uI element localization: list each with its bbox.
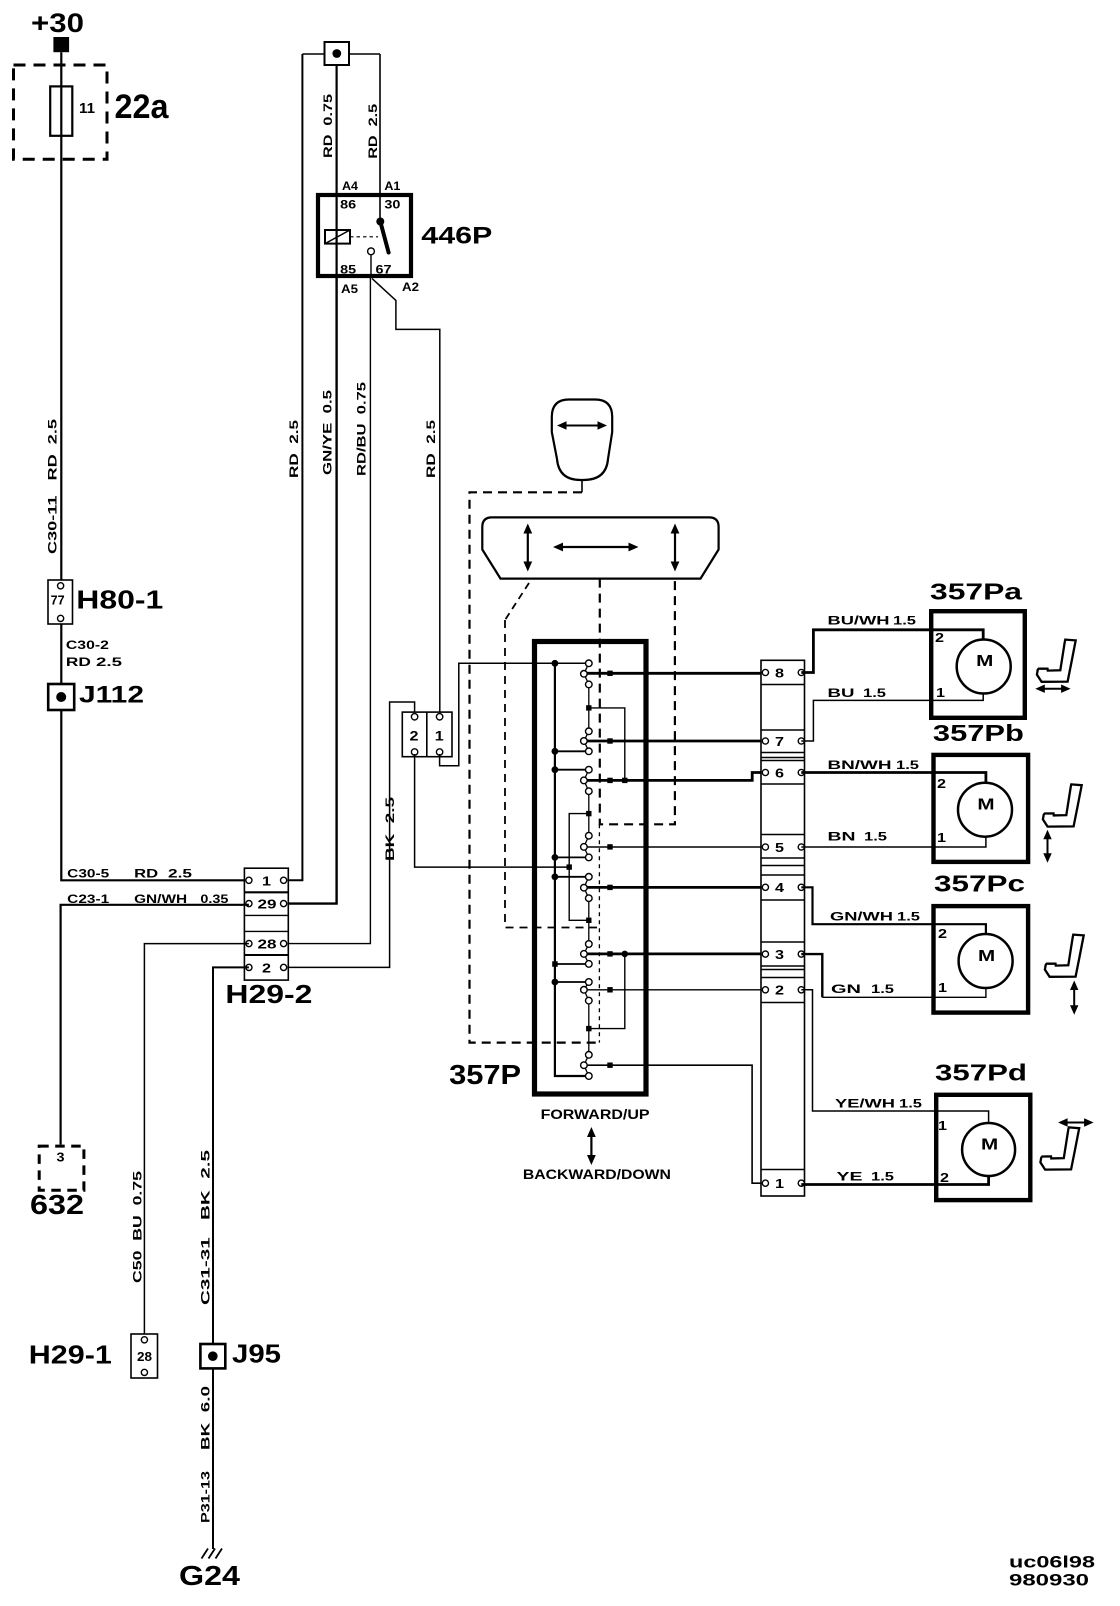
switch harness 2-pin connector body xyxy=(402,712,452,757)
seat a arrow xyxy=(1042,688,1064,690)
svg-text:632: 632 xyxy=(30,1189,84,1220)
svg-text:2: 2 xyxy=(410,728,419,744)
wire from junction left to RD 2.5 riser xyxy=(302,53,380,55)
svg-text:11: 11 xyxy=(79,100,95,117)
ground G24 symbol xyxy=(202,1549,223,1559)
contact chain verticals xyxy=(588,684,590,1054)
wire GN/WH 1.5 pin 4 to motor 357Pc xyxy=(801,887,986,934)
svg-text:28: 28 xyxy=(137,1349,152,1364)
wire C31-31 BK 2.5 H29-2 pin 2 to J95 and ground xyxy=(213,967,249,1549)
motor 357Pb M circle xyxy=(958,783,1012,837)
chain jumper 2 with connector return xyxy=(569,814,589,921)
wire BU/WH 1.5 pin 8 to motor 357Pa xyxy=(801,630,983,673)
wire RD 2.5 relay pin 67 to seat switch connector pin 1 xyxy=(372,279,440,715)
svg-text:+30: +30 xyxy=(31,8,84,38)
chain jumper 1 to pin 6 output xyxy=(589,708,625,781)
svg-text:2.5: 2.5 xyxy=(96,657,123,669)
svg-text:4: 4 xyxy=(775,880,785,895)
dashed boundary from knob to switch area xyxy=(470,492,601,1042)
seat switch knob xyxy=(552,400,612,481)
motor 357Pa M circle xyxy=(957,640,1011,694)
svg-text:1.5: 1.5 xyxy=(897,912,921,924)
svg-text:1: 1 xyxy=(936,685,945,700)
svg-text:A5: A5 xyxy=(341,284,359,296)
svg-text:2: 2 xyxy=(940,1170,949,1185)
svg-text:1.5: 1.5 xyxy=(864,832,888,844)
motor 357Pa housing xyxy=(931,611,1025,718)
switch contact set 7 xyxy=(584,982,589,1001)
svg-text:29: 29 xyxy=(258,897,277,912)
svg-text:A2: A2 xyxy=(402,282,419,294)
strip pin 5 xyxy=(762,844,768,850)
svg-text:RD 2.5: RD 2.5 xyxy=(426,419,438,478)
panel right vertical arrow xyxy=(674,532,676,563)
bus taps xyxy=(555,751,586,982)
svg-text:GN/WH: GN/WH xyxy=(830,912,893,924)
svg-text:BU: BU xyxy=(828,688,855,700)
svg-text:C31-31 BK 2.5: C31-31 BK 2.5 xyxy=(201,1149,213,1305)
fine dashed divider xyxy=(598,824,600,1042)
motor 357Pd housing xyxy=(936,1095,1030,1200)
svg-text:H29-2: H29-2 xyxy=(225,979,312,1009)
wire C23-1 GN/WH 0.35 to connector 632 xyxy=(61,905,249,1145)
svg-text:A4: A4 xyxy=(342,181,359,193)
relay actuating dashed link xyxy=(350,236,378,238)
svg-text:22a: 22a xyxy=(115,88,170,126)
connector H80-1 body xyxy=(48,580,73,624)
svg-text:H80-1: H80-1 xyxy=(76,585,163,615)
wire feed from connector pin 1 to switch common xyxy=(440,663,586,765)
svg-text:A1: A1 xyxy=(384,181,401,193)
strip pin 7 xyxy=(762,738,768,744)
svg-text:RD/BU 0.75: RD/BU 0.75 xyxy=(357,381,369,476)
svg-text:C30-5: C30-5 xyxy=(67,868,110,880)
svg-text:77: 77 xyxy=(51,593,65,608)
svg-text:1.5: 1.5 xyxy=(871,984,895,996)
seat icon d xyxy=(1040,1127,1079,1169)
svg-text:5: 5 xyxy=(775,840,784,855)
svg-text:H29-1: H29-1 xyxy=(29,1340,112,1370)
svg-text:RD: RD xyxy=(66,657,91,669)
svg-text:357P: 357P xyxy=(449,1059,521,1090)
relay switch arm from pin 30 xyxy=(376,218,384,226)
switch contact set 8 xyxy=(584,1055,589,1076)
junction J112 dot xyxy=(56,692,66,702)
svg-text:1.5: 1.5 xyxy=(863,688,887,700)
connector H29-2 pin circles xyxy=(246,877,252,883)
svg-text:M: M xyxy=(978,948,995,965)
output splice squares xyxy=(607,671,612,676)
svg-text:2: 2 xyxy=(938,926,947,941)
svg-text:2: 2 xyxy=(775,983,784,998)
connector 632 dashed body xyxy=(39,1146,84,1190)
wire feed from connector pin 2 to switch return xyxy=(415,754,570,867)
node +30 terminal square xyxy=(53,37,69,52)
wire RD 2.5 to relay pin 30 xyxy=(379,54,381,218)
relay coil wire through xyxy=(336,230,338,278)
svg-text:8: 8 xyxy=(775,665,784,680)
switch contact set 6 xyxy=(584,944,589,964)
svg-text:RD: RD xyxy=(134,868,158,880)
svg-text:2: 2 xyxy=(937,776,946,791)
strip pin 1 xyxy=(762,1180,768,1186)
direction arrow xyxy=(590,1135,592,1157)
svg-text:P31-13: P31-13 xyxy=(201,1471,213,1523)
connector H29-1 body xyxy=(131,1334,158,1378)
svg-text:C50 BU 0.75: C50 BU 0.75 xyxy=(133,1170,145,1283)
svg-text:J95: J95 xyxy=(232,1339,281,1369)
svg-text:3: 3 xyxy=(775,947,784,962)
svg-text:GN: GN xyxy=(831,984,861,996)
svg-text:C30-11 RD 2.5: C30-11 RD 2.5 xyxy=(48,418,60,554)
bus junction dots xyxy=(552,660,559,667)
svg-text:FORWARD/UP: FORWARD/UP xyxy=(541,1107,650,1122)
svg-text:357Pb: 357Pb xyxy=(933,720,1024,746)
seat d arrow xyxy=(1065,1122,1087,1124)
svg-text:357Pa: 357Pa xyxy=(930,579,1022,605)
svg-text:1: 1 xyxy=(262,874,271,889)
dashed diagonal to left section xyxy=(505,583,529,620)
junction dot xyxy=(332,49,341,58)
junction J95 dot xyxy=(208,1351,218,1361)
switch 357P common bus xyxy=(555,663,586,1076)
svg-text:2.5: 2.5 xyxy=(168,868,193,880)
junction J95 body xyxy=(200,1344,225,1368)
connector H29-2 body xyxy=(244,868,288,980)
svg-text:BN/WH: BN/WH xyxy=(828,760,892,772)
switch contact set 3 xyxy=(584,770,589,792)
svg-text:uc06l98: uc06l98 xyxy=(1009,1554,1095,1572)
svg-text:RD 0.75: RD 0.75 xyxy=(323,93,335,158)
dashed boundary left section xyxy=(505,620,597,928)
seat c arrow xyxy=(1073,988,1075,1009)
strip pin 2 xyxy=(762,987,768,993)
svg-text:M: M xyxy=(981,1137,998,1154)
chain jumper 3 to pin 3 output xyxy=(589,954,625,1029)
wire GN 1.5 pin 3 to motor 357Pc xyxy=(801,954,822,997)
wire +30 feed down through fuse to H80-1 and J112 xyxy=(61,52,249,880)
svg-text:7: 7 xyxy=(775,734,784,749)
svg-text:BK 2.5: BK 2.5 xyxy=(385,796,397,861)
svg-text:YE: YE xyxy=(837,1172,864,1184)
relay coil xyxy=(325,230,350,244)
svg-text:1: 1 xyxy=(775,1176,784,1191)
svg-text:6: 6 xyxy=(775,765,784,780)
svg-text:1.5: 1.5 xyxy=(893,616,917,628)
svg-text:BACKWARD/DOWN: BACKWARD/DOWN xyxy=(523,1167,671,1182)
svg-text:BK 6.0: BK 6.0 xyxy=(201,1386,213,1450)
switch contact set 5 xyxy=(584,877,589,898)
panel horizontal arrow xyxy=(561,546,630,548)
svg-text:G24: G24 xyxy=(179,1560,240,1591)
wire YE 1.5 pin 1 to motor 357Pd xyxy=(801,1176,988,1185)
svg-text:85: 85 xyxy=(340,265,357,277)
seat icon a xyxy=(1037,640,1076,682)
connector H80-1 pin circles xyxy=(58,583,64,589)
relay contact pin 67 xyxy=(368,248,375,255)
svg-text:1.5: 1.5 xyxy=(871,1172,895,1184)
wire RD 2.5 long riser to H29-2 pin 1 xyxy=(284,54,303,880)
svg-text:446P: 446P xyxy=(421,223,492,250)
motor 357Pd M circle xyxy=(962,1123,1015,1176)
wire BN 1.5 pin 5 to motor 357Pb xyxy=(801,837,986,847)
junction J112 body xyxy=(48,684,74,710)
wire BK 2.5 H29-2 pin 2 to switch connector pin 2 xyxy=(284,702,415,967)
wire C50 BU 0.75 H29-2 pin 28 to H29-1 xyxy=(144,944,249,1337)
svg-text:1.5: 1.5 xyxy=(896,760,920,772)
switch contact set 4 xyxy=(584,836,589,858)
motor 357Pc housing xyxy=(934,906,1029,1013)
wire YE/WH 1.5 pin 2 to motor 357Pd xyxy=(801,990,988,1123)
svg-text:M: M xyxy=(976,653,993,670)
switch panel face xyxy=(482,517,718,578)
wire RD 0.75 to relay pin 86 xyxy=(336,65,338,230)
top junction terminal box xyxy=(325,42,350,65)
svg-text:28: 28 xyxy=(258,937,277,952)
svg-text:1.5: 1.5 xyxy=(899,1099,923,1111)
fuse 22a element xyxy=(50,86,72,135)
wire BN/WH 1.5 pin 6 to motor 357Pb xyxy=(801,773,986,783)
relay 446P box xyxy=(318,195,411,276)
svg-text:3: 3 xyxy=(57,1150,65,1165)
switch unit 357P housing xyxy=(535,642,647,1095)
svg-text:357Pc: 357Pc xyxy=(934,871,1025,897)
svg-text:RD 2.5: RD 2.5 xyxy=(289,419,301,478)
motor 357Pc M circle xyxy=(959,934,1013,988)
svg-text:357Pd: 357Pd xyxy=(935,1060,1027,1086)
svg-text:BU/WH: BU/WH xyxy=(828,616,890,628)
wire BU 1.5 pin 7 to motor 357Pa xyxy=(801,694,983,741)
strip pin 4 xyxy=(762,884,768,890)
svg-text:J112: J112 xyxy=(79,682,144,709)
svg-text:2: 2 xyxy=(262,961,271,976)
svg-text:1: 1 xyxy=(938,1118,947,1133)
svg-text:BN: BN xyxy=(828,832,856,844)
knob arrow xyxy=(564,425,600,427)
fuse 22a dashed housing xyxy=(14,65,108,159)
seat icon b xyxy=(1043,784,1082,826)
svg-text:RD 2.5: RD 2.5 xyxy=(368,103,380,159)
svg-text:YE/WH: YE/WH xyxy=(835,1099,895,1111)
switch contact set 1 xyxy=(584,663,589,684)
knob stem xyxy=(581,480,583,492)
svg-text:1: 1 xyxy=(937,830,946,845)
bus junction square xyxy=(552,961,558,967)
wire RD/BU 0.75 relay pin 67 to H29-2 pin 28 xyxy=(284,278,371,944)
wire GN/YE 0.5 relay pin 85 to H29-2 pin 29 xyxy=(284,278,337,904)
panel left vertical arrow xyxy=(527,532,529,563)
svg-text:1: 1 xyxy=(435,728,444,744)
svg-text:GN/YE 0.5: GN/YE 0.5 xyxy=(323,389,335,475)
svg-text:C30-2: C30-2 xyxy=(66,640,109,652)
svg-text:1: 1 xyxy=(938,980,947,995)
svg-text:2: 2 xyxy=(935,630,944,645)
seat b arrow xyxy=(1047,837,1049,857)
strip pin 3 xyxy=(762,951,768,957)
svg-text:67: 67 xyxy=(376,265,392,277)
switch output wires to connector pins xyxy=(586,672,766,675)
strip pin 6 xyxy=(762,769,768,775)
svg-text:86: 86 xyxy=(340,200,356,212)
switch contact set 2 xyxy=(584,731,589,751)
dashed boundary right section xyxy=(600,579,675,825)
svg-text:980930: 980930 xyxy=(1009,1572,1089,1590)
harness connector strip body xyxy=(761,660,805,1196)
seat icon c xyxy=(1045,935,1084,977)
strip pin 8 xyxy=(762,669,768,675)
motor 357Pb housing xyxy=(934,755,1029,862)
svg-text:30: 30 xyxy=(384,200,400,212)
svg-text:M: M xyxy=(977,797,994,814)
